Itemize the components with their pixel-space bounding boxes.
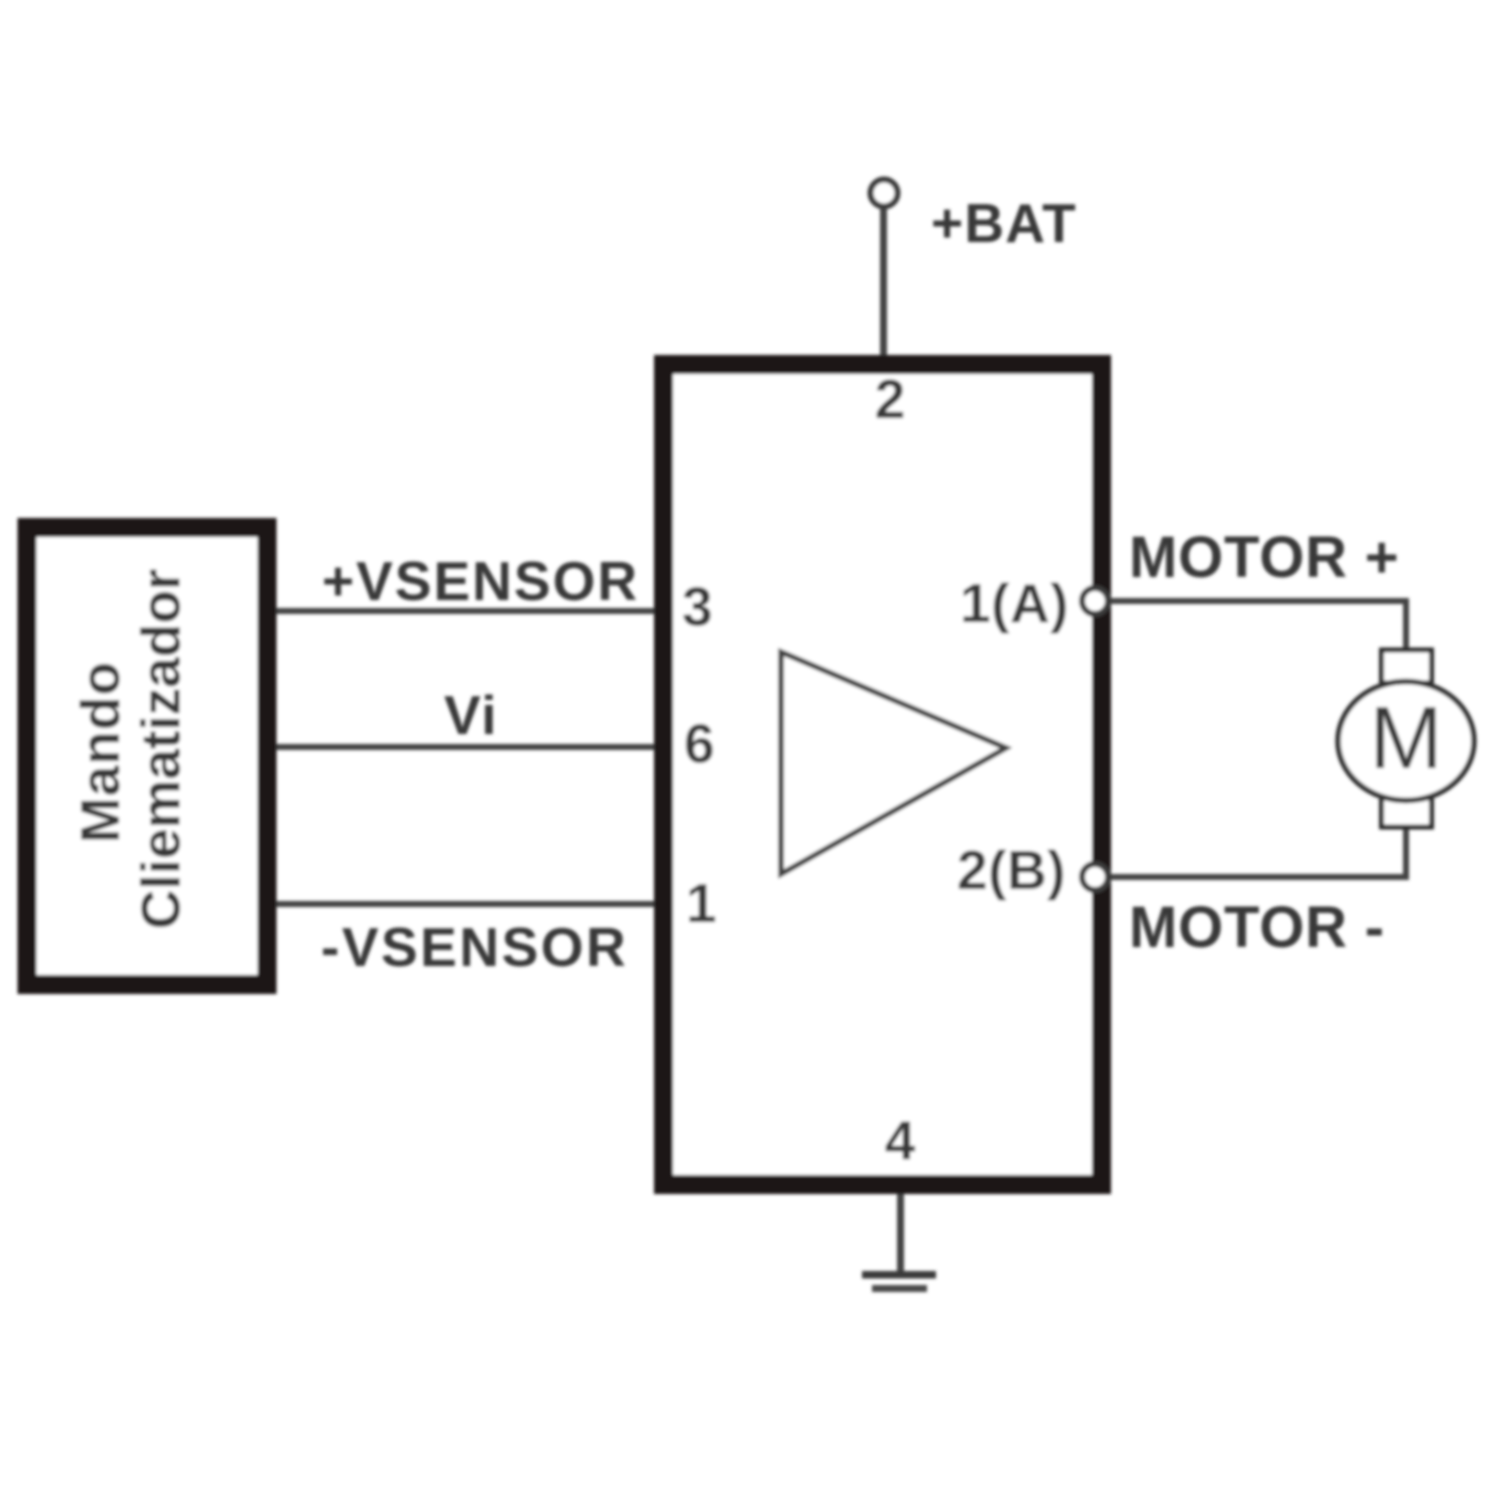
motor M1 body <box>1338 682 1474 801</box>
terminal +BAT circle <box>871 180 898 207</box>
node pin 1(A) circle <box>1082 588 1108 614</box>
wire MOTOR - vertical <box>1403 824 1409 880</box>
svg-text:M: M <box>1369 688 1442 787</box>
svg-text:1: 1 <box>686 872 717 934</box>
svg-text:-VSENSOR: -VSENSOR <box>321 916 628 978</box>
ground bar 2 <box>872 1285 927 1292</box>
wire MOTOR + vertical <box>1403 598 1409 653</box>
svg-text:1(A): 1(A) <box>960 572 1069 634</box>
node pin 2(B) circle <box>1082 864 1108 890</box>
wire +BAT stem (pin 2) <box>880 206 887 356</box>
wire pin 4 ground stem <box>897 1194 904 1275</box>
svg-text:4: 4 <box>885 1109 916 1171</box>
svg-text:MOTOR -: MOTOR - <box>1129 895 1385 960</box>
svg-text:3: 3 <box>682 576 713 638</box>
wire MOTOR - horizontal <box>1111 874 1406 880</box>
ground bar 1 <box>862 1271 936 1279</box>
svg-text:Cliematizador: Cliematizador <box>129 569 191 930</box>
svg-text:+BAT: +BAT <box>931 192 1077 254</box>
wire Vi net (pin 6) <box>276 744 656 750</box>
svg-text:Vi: Vi <box>444 684 498 746</box>
svg-text:MOTOR +: MOTOR + <box>1129 525 1399 590</box>
svg-text:2: 2 <box>875 368 906 430</box>
wire -VSENSOR net (pin 1) <box>276 901 656 907</box>
motor M1 bottom terminal <box>1382 798 1432 827</box>
svg-text:+VSENSOR: +VSENSOR <box>322 550 639 612</box>
op-amp triangle <box>781 652 1006 874</box>
motor M1 top terminal <box>1382 650 1432 683</box>
wire MOTOR + horizontal <box>1111 598 1406 604</box>
wire +VSENSOR net (pin 3) <box>276 608 656 614</box>
IC box U1 <box>664 365 1102 1185</box>
svg-text:6: 6 <box>684 713 715 775</box>
box Mando Cliematizador <box>27 528 267 985</box>
svg-text:Mando: Mando <box>69 661 131 843</box>
svg-text:2(B): 2(B) <box>957 839 1066 901</box>
label Mando Cliematizador <box>69 569 192 930</box>
